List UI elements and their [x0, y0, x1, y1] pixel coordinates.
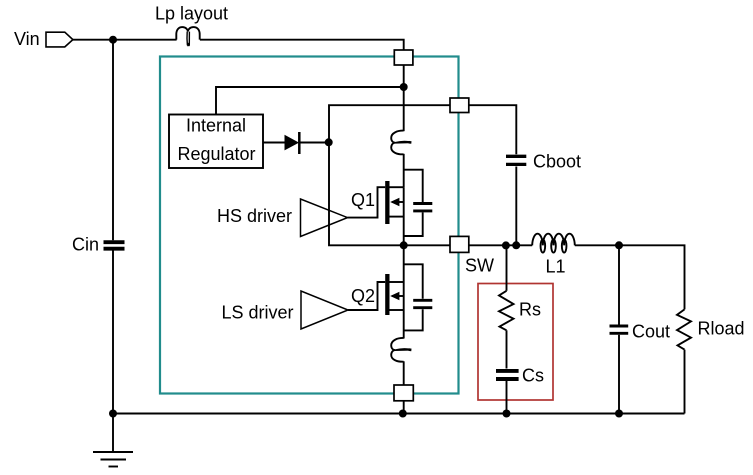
wire: top pin down to regulator node	[403, 64, 405, 87]
Q2 channel bar	[385, 274, 389, 315]
wire: SW rail to SW pin	[404, 244, 450, 246]
node: SW junction dot (Q1 source / Q2 drain)	[400, 241, 408, 249]
pin square: top (Vin pin)	[394, 50, 413, 65]
node: ground left junction dot	[109, 410, 117, 418]
pin square: boot pin	[450, 98, 469, 113]
op-amp U2 (LS driver triangle)	[301, 291, 348, 329]
wire: regulator node down to Q1 loop (crosses y=105 rail)	[403, 87, 405, 131]
inductor Lp layout (two loops + tail)	[176, 27, 199, 46]
wire: snubber vertical from SW to Rs	[506, 245, 508, 290]
node: Cout top junction dot	[615, 241, 623, 249]
diode D1 (bootstrap)	[285, 132, 300, 154]
node: ground rail junction dot (snubber)	[503, 410, 511, 418]
svg-text:Cboot: Cboot	[533, 152, 581, 172]
svg-text:Lp layout: Lp layout	[155, 4, 228, 24]
svg-text:L1: L1	[546, 257, 566, 277]
wire: boot rail vertical (pin2 line down through HS driver to SW rail)	[329, 105, 450, 245]
inductor L1 (output coil)	[532, 234, 575, 253]
wire: Cboot bottom to SW rail	[515, 167, 517, 246]
node: ground rail junction dot (Q2)	[399, 410, 407, 418]
wire: Q2 loop to bottom pin	[403, 361, 405, 385]
svg-text:Vin: Vin	[14, 29, 40, 49]
inductor: Q1 drain parasitic loop	[391, 131, 411, 155]
Q2 source stub	[390, 309, 404, 311]
svg-text:Cs: Cs	[522, 366, 544, 386]
svg-text:Rs: Rs	[519, 300, 541, 320]
Q1 source stub	[390, 216, 404, 218]
svg-text:LS driver: LS driver	[222, 303, 294, 323]
Q1 drain stub	[390, 186, 404, 188]
capacitor Cout vertical wire	[618, 245, 620, 413]
wire: diode cathode to boot rail	[299, 142, 329, 144]
block: Internal Regulator box	[169, 115, 263, 169]
svg-text:SW: SW	[465, 256, 494, 276]
resistor Rs	[499, 291, 514, 331]
Q2 source vertical	[403, 282, 405, 339]
wire: input node to Lp layout	[113, 39, 177, 41]
Q1 source vertical to SW	[403, 187, 405, 245]
wire: boot pin to Cboot top	[469, 105, 517, 154]
capacitor: Q1 parasitic Coss branch	[404, 170, 433, 236]
wire: bottom pin to ground rail	[403, 401, 405, 414]
wire: LS driver output to Q2 gate	[348, 282, 385, 310]
capacitor Cs	[496, 371, 519, 379]
pin square: SW pin	[450, 236, 469, 252]
wire: regulator output to diode anode	[263, 142, 285, 144]
wire: bottom ground rail	[113, 413, 685, 415]
svg-text:Q2: Q2	[351, 286, 375, 306]
capacitor Cin plates	[104, 242, 125, 249]
node: Cboot junction dot	[512, 241, 520, 249]
wire: Q2 drain from SW node down	[403, 245, 405, 282]
wire: HS driver output to Q1 gate	[348, 187, 386, 217]
wire: Cs to ground rail	[506, 381, 508, 414]
wire: SW pin to snubber and L1	[469, 244, 532, 246]
capacitor Cout plates	[610, 326, 629, 333]
svg-text:HS driver: HS driver	[217, 206, 292, 226]
wire: Rs to Cs	[506, 330, 508, 368]
wire: Lp layout to top pin, corner down	[200, 40, 404, 50]
svg-text:Q1: Q1	[351, 190, 375, 210]
IC boundary box (teal)	[160, 57, 459, 394]
resistor Rload	[677, 309, 691, 349]
pin square: power ground pin	[394, 385, 413, 401]
capacitor Cin vertical wire	[112, 40, 114, 414]
wire: Q1 loop to Q1 drain	[403, 154, 405, 187]
wire: Rload bottom to ground rail	[684, 350, 686, 414]
node: input junction dot	[109, 36, 117, 44]
capacitor: Q2 parasitic Coss branch	[404, 264, 433, 330]
inductor: Q2 source parasitic loop	[391, 338, 411, 362]
node: diode output junction dot	[325, 138, 333, 146]
svg-text:Cin: Cin	[72, 235, 99, 255]
Q2 body arrow	[390, 292, 404, 300]
svg-text:Rload: Rload	[698, 319, 745, 339]
Q2 drain stub	[390, 281, 404, 283]
svg-text:Internal: Internal	[186, 116, 246, 136]
op-amp U1 (HS driver triangle)	[301, 199, 348, 237]
svg-text:Regulator: Regulator	[178, 144, 256, 164]
snubber box (red) around Rs and Cs	[478, 284, 553, 401]
capacitor Cboot	[506, 156, 526, 164]
wire: Vin tag to input node	[73, 39, 113, 41]
node: Cout bottom junction dot	[615, 410, 623, 418]
Vin input tag	[46, 32, 73, 47]
wire: internal regulator top to junction	[216, 87, 404, 115]
svg-text:Cout: Cout	[632, 322, 670, 342]
transistor Q1 (high side MOSFET)	[385, 181, 404, 245]
node: snubber junction dot	[502, 241, 510, 249]
node: regulator top junction dot	[400, 83, 408, 91]
transistor Q2 (low side MOSFET)	[385, 274, 404, 339]
Q1 channel bar	[385, 181, 389, 224]
Q1 body arrow	[390, 198, 404, 206]
wire: L1 to output rail corner, down to Rload	[575, 245, 685, 309]
ground symbol	[93, 414, 133, 467]
